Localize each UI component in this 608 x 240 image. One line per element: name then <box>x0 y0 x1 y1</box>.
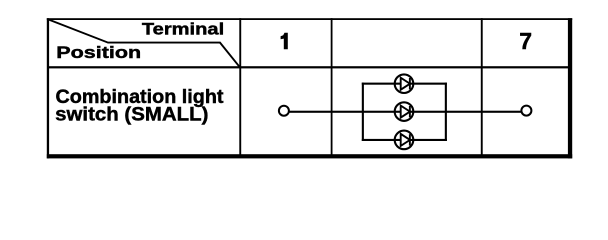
wire: parallel block right vertical <box>445 83 447 141</box>
pin number 1 <box>281 33 288 50</box>
row divider <box>47 66 568 68</box>
diode D1 (top branch) <box>395 74 414 93</box>
column divider after header cell <box>239 18 241 156</box>
diode D2 (middle branch) <box>395 102 414 121</box>
terminal 7 open circle <box>521 106 531 116</box>
diode D3 (bottom branch) <box>395 131 414 150</box>
svg-text:7: 7 <box>519 28 532 54</box>
pin number 7 <box>519 28 532 54</box>
wire: bottom branch <box>362 139 447 141</box>
svg-text:Terminal: Terminal <box>142 20 224 39</box>
table left border <box>47 18 49 158</box>
table bottom border (thick) <box>47 154 572 158</box>
header label Position <box>56 43 141 62</box>
svg-text:switch (SMALL): switch (SMALL) <box>55 104 208 125</box>
terminal 1 open circle <box>279 106 289 116</box>
row label: Combination light switch (SMALL) <box>55 87 224 126</box>
header diagonal divider (Terminal / Position) <box>49 20 240 68</box>
table right border (thick) <box>568 18 572 158</box>
wire: parallel block left vertical <box>362 83 364 141</box>
wire: top branch <box>362 83 447 85</box>
column divider before terminal-7 column <box>481 18 483 156</box>
wire: main horizontal from terminal 1 to terminal 7 <box>290 111 522 113</box>
svg-text:Position: Position <box>56 43 141 62</box>
table top border <box>47 18 572 20</box>
header label Terminal <box>142 20 224 39</box>
column divider after terminal-1 column <box>331 18 333 156</box>
